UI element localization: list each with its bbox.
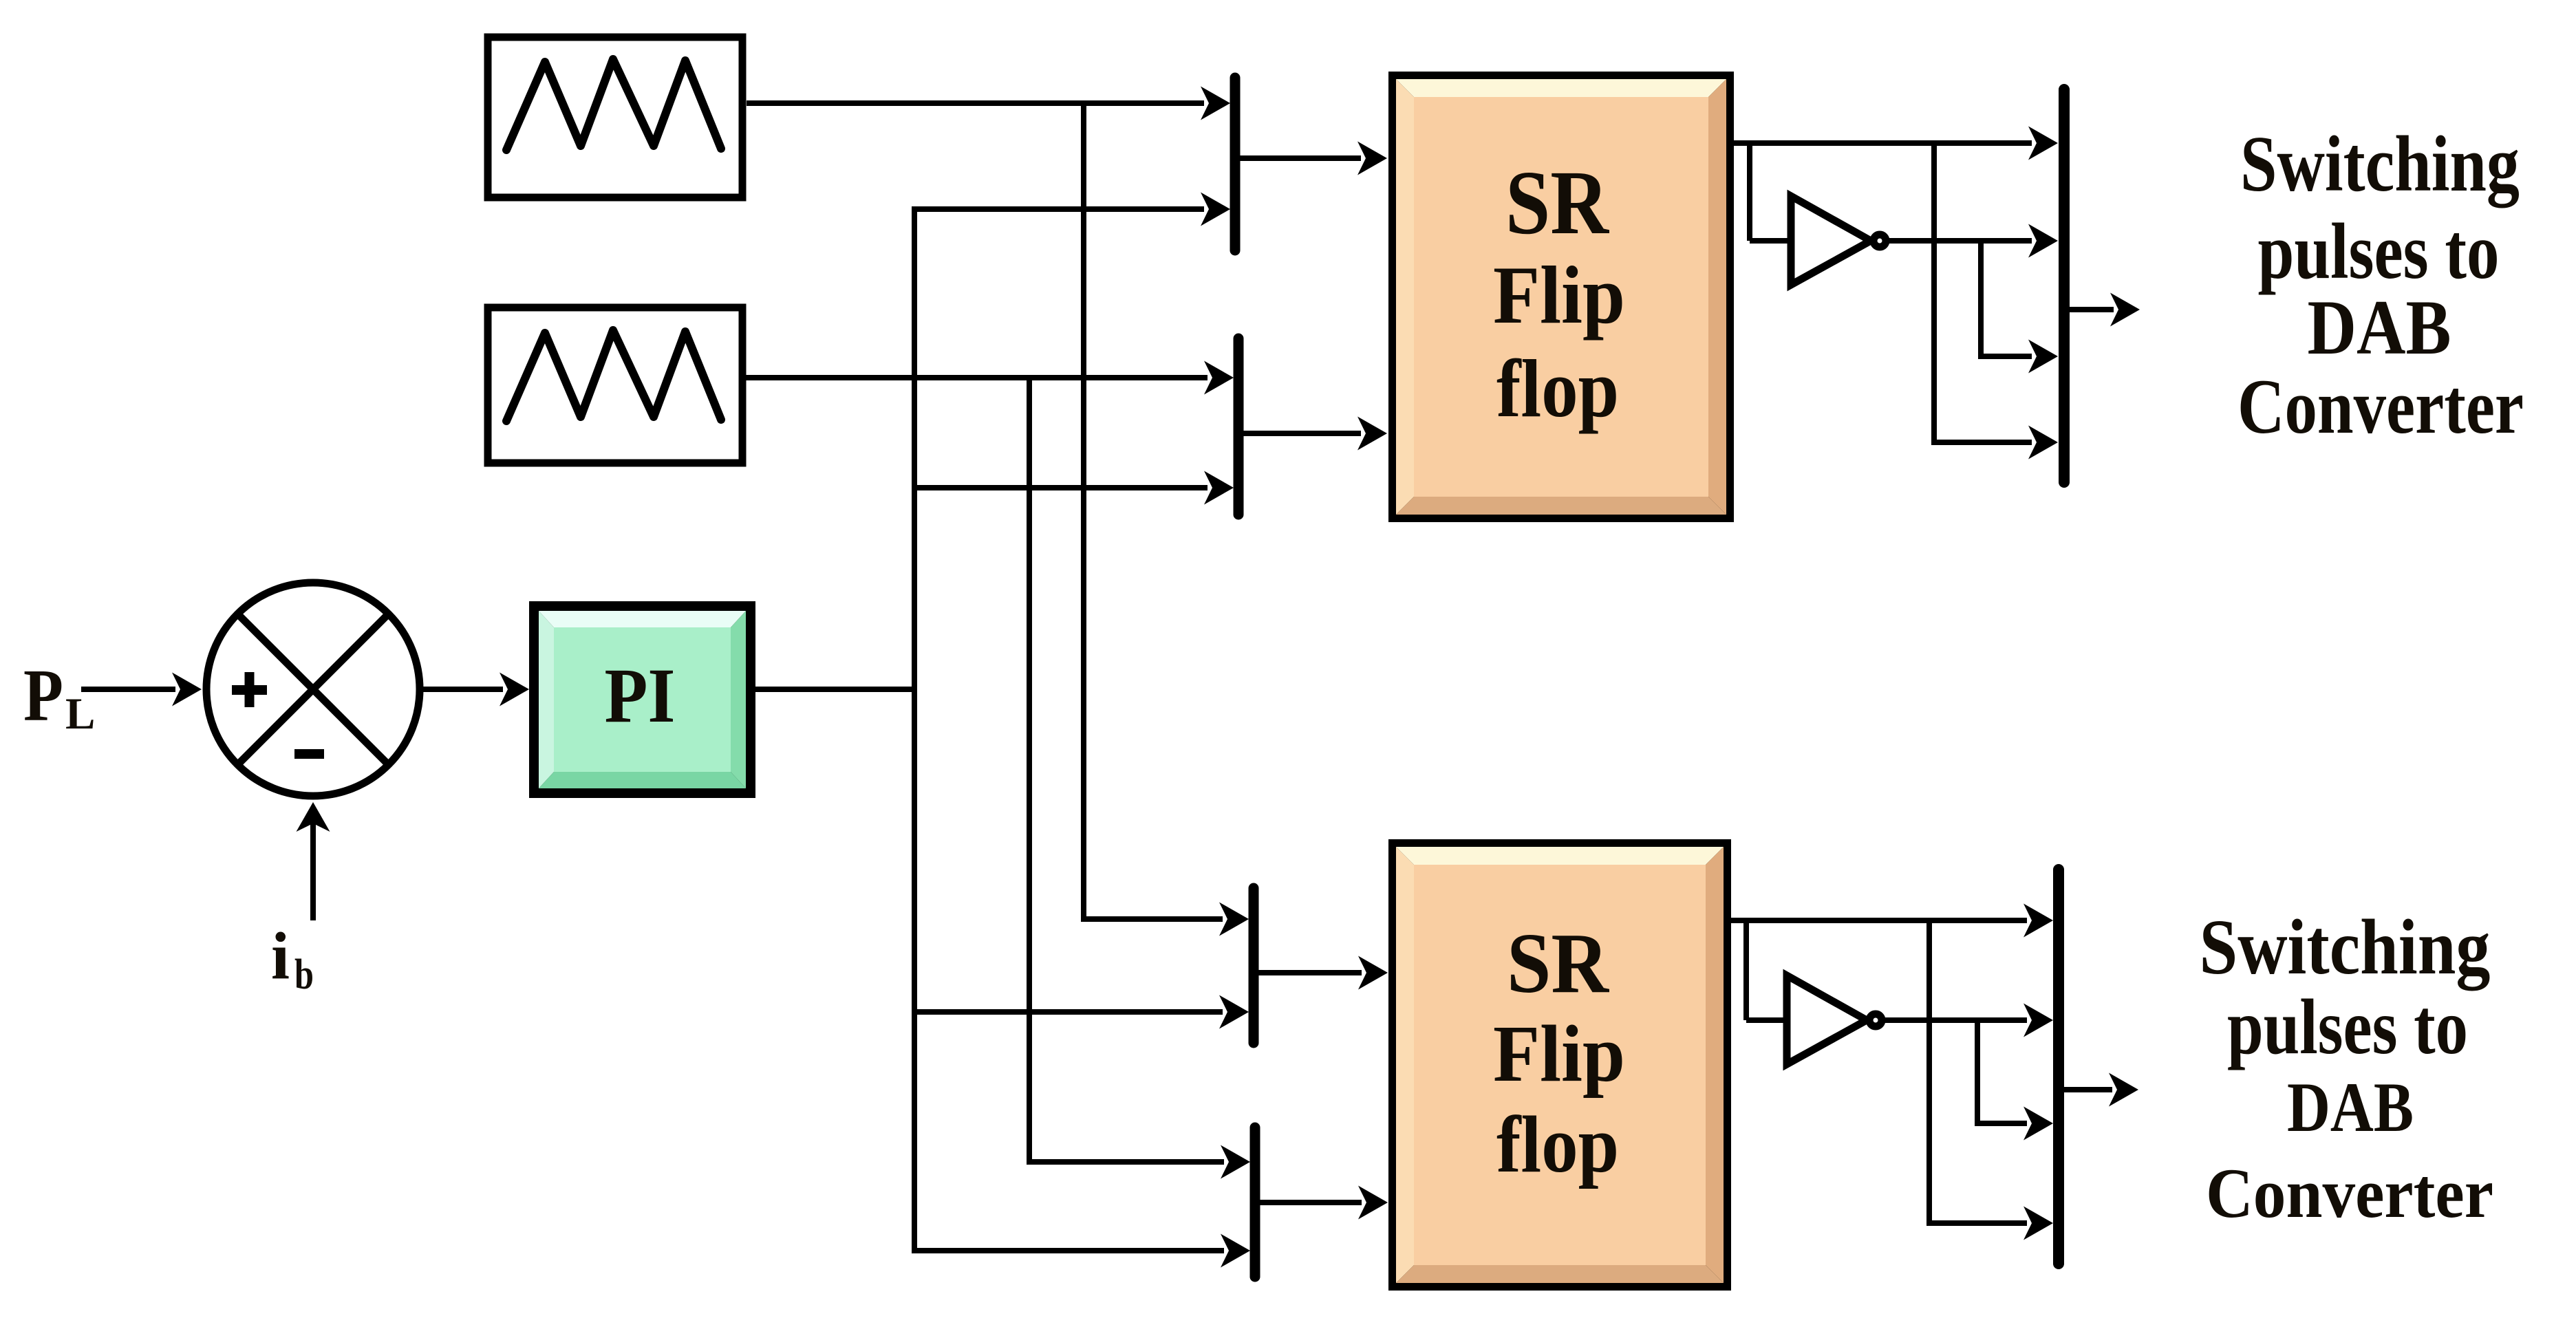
svg-text:Switching: Switching bbox=[2200, 903, 2491, 991]
PI controller block bbox=[529, 601, 755, 798]
triangle waveform symbol 1 bbox=[506, 59, 721, 150]
label i_b bbox=[271, 919, 314, 998]
wire: bus-bar 3 to SR flip flop 2 bbox=[1254, 956, 1388, 990]
svg-text:b: b bbox=[294, 951, 314, 998]
wire: summing junction to PI controller bbox=[422, 673, 529, 706]
wire: Q branch vertical to output bus 2 (bottom) bbox=[1926, 920, 2053, 1240]
svg-text:SR: SR bbox=[1505, 151, 1610, 253]
wire: i_b feedback arrow into summing junction bbox=[297, 802, 330, 920]
wire: NOT 1 branch vertical to output bus 1 bbox=[1978, 241, 2058, 374]
wire: bus-bar 2 to SR flip flop 1 bbox=[1238, 417, 1387, 451]
svg-text:DAB: DAB bbox=[2308, 285, 2451, 371]
svg-text:i: i bbox=[271, 919, 290, 993]
svg-text:P: P bbox=[23, 655, 63, 737]
svg-text:Converter: Converter bbox=[2237, 364, 2524, 450]
summing junction bbox=[206, 583, 420, 796]
svg-text:flop: flop bbox=[1496, 343, 1619, 434]
wire: SR flip flop 1 Q output to output bus 1 bbox=[1734, 127, 2058, 160]
svg-text:L: L bbox=[65, 689, 95, 739]
minus sign bbox=[294, 749, 324, 759]
carrier generator block 2 (triangle wave source) bbox=[488, 308, 742, 463]
wire: PI signal to bus-bar 3 bbox=[914, 995, 1249, 1029]
NOT gate 1 bbox=[1791, 196, 1886, 285]
label P_L bbox=[23, 655, 95, 739]
NOT gate 2 bbox=[1787, 975, 1882, 1064]
wire: output bus 1 arrow to DAB converter bbox=[2070, 293, 2140, 327]
wire: carrier 1 vertical feed to bus-bar 3 bbox=[1081, 103, 1249, 936]
wire: NOT gate 1 output to output bus 1 bbox=[1888, 224, 2058, 258]
wire: Q branch vertical to output bus 1 (bottom) bbox=[1931, 143, 2058, 460]
output bus 1 bbox=[2059, 89, 2070, 482]
wire: Q output branch down to NOT gate 1 bbox=[1750, 143, 1790, 241]
wire: output bus 2 arrow to DAB converter bbox=[2064, 1073, 2138, 1107]
svg-text:pulses to: pulses to bbox=[2227, 983, 2468, 1070]
wire: carrier 2 vertical feed to bus-bar 4 bbox=[1027, 378, 1250, 1179]
wire: carrier 1 output to bus-bar 1 bbox=[747, 87, 1230, 120]
wire: PI signal vertical distribution line bbox=[912, 206, 917, 1253]
bus-bar 1 (inputs of SR flip flop 1) bbox=[1230, 78, 1241, 250]
wire: NOT 2 branch vertical to output bus 2 bbox=[1975, 1020, 2053, 1141]
plus sign bbox=[232, 685, 267, 695]
wire: carrier 2 output to bus-bar 2 bbox=[745, 361, 1234, 395]
wire: SR flip flop 2 Q output to output bus 2 bbox=[1731, 904, 2053, 938]
SR flip flop 1 bbox=[1388, 72, 1734, 522]
svg-text:Flip: Flip bbox=[1493, 1008, 1625, 1099]
wire: NOT gate 2 output to output bus 2 bbox=[1884, 1004, 2053, 1037]
bus-bar 4 (inputs of SR flip flop 2) bbox=[1250, 1128, 1260, 1277]
svg-text:Flip: Flip bbox=[1493, 249, 1625, 341]
label: switching pulses text (top) bbox=[2237, 120, 2524, 450]
wire: PI output to distribution node bbox=[755, 687, 914, 692]
carrier generator block 1 (triangle wave source) bbox=[488, 37, 742, 197]
wire: Q output branch down to NOT gate 2 bbox=[1746, 920, 1786, 1020]
svg-text:SR: SR bbox=[1507, 916, 1610, 1011]
svg-text:PI: PI bbox=[605, 653, 676, 739]
svg-text:Switching: Switching bbox=[2240, 120, 2520, 208]
wire: PI signal to bus-bar 1 bbox=[912, 193, 1230, 226]
svg-text:Converter: Converter bbox=[2206, 1154, 2493, 1233]
label: switching pulses text (bottom) bbox=[2200, 903, 2494, 1233]
bus-bar 2 (inputs of SR flip flop 1) bbox=[1234, 338, 1244, 515]
output bus 2 bbox=[2053, 870, 2064, 1264]
SR flip flop 2 bbox=[1388, 839, 1731, 1291]
bus-bar 3 (inputs of SR flip flop 2) bbox=[1249, 888, 1259, 1043]
svg-text:DAB: DAB bbox=[2287, 1068, 2414, 1147]
svg-text:pulses to: pulses to bbox=[2258, 208, 2500, 296]
svg-text:flop: flop bbox=[1496, 1099, 1619, 1189]
triangle waveform symbol 2 bbox=[506, 330, 721, 421]
wire: bus-bar 1 to SR flip flop 1 bbox=[1235, 142, 1387, 175]
wire: PI signal to bus-bar 2 bbox=[914, 471, 1234, 505]
wire: bus-bar 4 to SR flip flop 2 bbox=[1255, 1186, 1388, 1220]
wire: P_L input arrow into summing junction bbox=[81, 673, 202, 706]
wire: PI signal to bus-bar 4 bbox=[912, 1234, 1250, 1268]
